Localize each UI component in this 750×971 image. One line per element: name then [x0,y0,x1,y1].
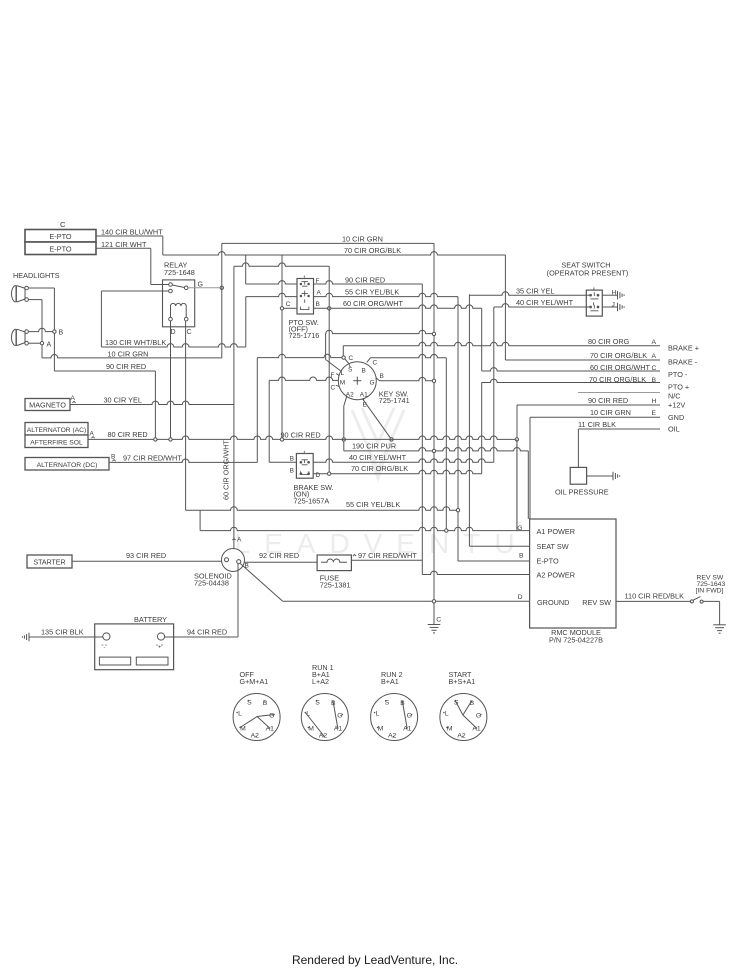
svg-text:A2: A2 [388,733,397,740]
key switch A1 tick [362,398,365,401]
svg-text:+12V: +12V [668,401,685,410]
column from 90 CIR RED row to fuse/A2 row [421,284,423,575]
svg-text:PTO +: PTO + [668,382,689,391]
wire L row branch [326,330,434,333]
key position OFF G+M+A1 [233,694,280,741]
svg-text:G: G [370,380,375,387]
svg-text:A1: A1 [472,726,481,733]
svg-text:B: B [362,367,366,374]
PTO switch 725-1716 [297,279,314,315]
wire key M 190 feed [269,377,338,380]
svg-text:725-04438: 725-04438 [194,578,229,587]
svg-text:A2 POWER: A2 POWER [537,570,576,579]
svg-text:L: L [445,711,449,718]
junction brake row on PTO B column [328,472,331,475]
svg-text:B+A1: B+A1 [381,677,399,686]
svg-text:(OPERATOR PRESENT): (OPERATOR PRESENT) [547,268,629,277]
svg-text:90 CIR RED: 90 CIR RED [106,362,146,371]
svg-text:725-1741: 725-1741 [379,396,410,405]
svg-text:P/N 725-04227B: P/N 725-04227B [549,635,603,644]
node B junction [53,330,56,333]
svg-text:D: D [518,594,523,601]
wire headlight upper lower terminal to node A column [28,299,42,301]
svg-text:G: G [476,713,481,720]
svg-text:BRAKE -: BRAKE - [668,358,698,367]
svg-text:94 CIR RED: 94 CIR RED [187,627,227,636]
svg-text:B: B [59,330,64,337]
svg-text:M: M [447,726,453,733]
wire 30 CIR YEL [72,401,75,403]
E-PTO branch column to PTO row [245,255,247,284]
key position RUN 2 B+A1 [371,694,418,741]
svg-text:BRAKE +: BRAKE + [668,344,699,353]
key position START B+S+A1 [440,694,487,741]
svg-text:A1: A1 [266,726,275,733]
svg-text:40 CIR YEL/WHT: 40 CIR YEL/WHT [516,298,574,307]
key switch S tick [349,365,350,367]
svg-text:97 CIR RED/WHT: 97 CIR RED/WHT [123,453,182,462]
svg-text:A1: A1 [334,726,343,733]
svg-text:B: B [519,552,524,559]
PTO switch internals [300,276,309,310]
watermark LeadVenture V logo [352,408,404,478]
svg-text:B: B [290,455,294,462]
svg-text:B: B [290,467,294,474]
relay coil [170,306,172,317]
svg-text:A: A [317,290,322,297]
wire 80 CIR RED from alternator [91,437,94,439]
svg-text:G+M+A1: G+M+A1 [240,677,269,686]
solenoid 725-04438 [222,549,245,572]
svg-text:GROUND: GROUND [537,598,569,607]
column PTO B to brake row [328,266,330,473]
svg-text:N/C: N/C [668,391,681,400]
svg-text:40 CIR YEL/WHT: 40 CIR YEL/WHT [349,453,407,462]
headlight upper [11,285,15,302]
svg-text:MAGNETO: MAGNETO [29,400,66,409]
svg-text:90 CIR RED: 90 CIR RED [345,276,385,285]
wire key A2 down to 190 CIR PUR [344,397,347,406]
key switch plus mark [353,380,361,382]
junction +12V column on 90 row [515,438,518,441]
column key C right down [445,358,447,531]
svg-text:11 CIR BLK: 11 CIR BLK [578,420,616,429]
column PTO- to right list [481,308,483,371]
svg-text:D: D [171,329,176,336]
svg-text:C: C [349,355,354,362]
svg-text:D: D [316,472,321,479]
svg-text:L: L [238,711,242,718]
svg-text:10 CIR GRN: 10 CIR GRN [342,234,383,243]
solenoid pin A [232,539,235,541]
svg-text:A: A [652,353,657,360]
svg-text:B: B [111,453,115,460]
junction key E on 90 CIR RED row [390,438,393,441]
svg-text:ALTERNATOR (DC): ALTERNATOR (DC) [37,462,98,469]
svg-text:60 CIR ORG/WHT: 60 CIR ORG/WHT [590,363,651,372]
svg-text:L+A2: L+A2 [312,677,329,686]
key switch F tick [336,374,339,376]
svg-text:M: M [378,726,384,733]
brake switch internals [300,451,310,475]
svg-text:70 CIR ORG/BLK: 70 CIR ORG/BLK [351,464,408,473]
wire solenoid to ground diagonal [240,564,282,602]
svg-text:93 CIR RED: 93 CIR RED [126,551,166,560]
svg-text:AFTERFIRE SOL: AFTERFIRE SOL [30,439,83,446]
connector E-PTO 2 [25,242,96,255]
wire key E diagonal [362,399,391,440]
svg-text:C: C [60,220,66,229]
svg-text:[IN FWD]: [IN FWD] [696,587,724,594]
svg-text:A2: A2 [319,733,328,740]
junction A2 on 90 CIR RED row [342,438,345,441]
svg-text:190 CIR PUR: 190 CIR PUR [352,441,396,450]
starter [27,555,72,568]
wire solenoid to battery column [237,564,239,637]
svg-text:"+": "+" [156,645,163,651]
svg-text:30 CIR YEL: 30 CIR YEL [104,395,142,404]
svg-text:A: A [47,342,52,349]
svg-text:121 CIR WHT: 121 CIR WHT [101,240,147,249]
svg-text:A: A [90,430,95,437]
connector E-PTO 1 [25,230,96,243]
svg-text:B+S+A1: B+S+A1 [449,677,476,686]
svg-text:PTO -: PTO - [668,370,688,379]
junction 90 CIR RED alternator columns [154,438,157,441]
svg-text:70 CIR ORG/BLK: 70 CIR ORG/BLK [590,351,647,360]
svg-text:ALTERNATOR (AC): ALTERNATOR (AC) [27,427,86,434]
svg-text:97 CIR RED/WHT: 97 CIR RED/WHT [358,551,417,560]
svg-text:10 CIR GRN: 10 CIR GRN [590,408,631,417]
svg-text:GND: GND [668,413,684,422]
RMC module P/N 725-04227B [530,519,616,628]
svg-text:92 CIR RED: 92 CIR RED [259,551,299,560]
junction headlight column on PTO C row [280,307,283,310]
N/C stub [578,392,660,394]
brake switch 725-1657A [296,454,313,479]
svg-text:H: H [652,398,657,405]
svg-text:Rendered by LeadVenture, Inc.: Rendered by LeadVenture, Inc. [292,953,458,967]
svg-text:60 CIR ORG/WHT: 60 CIR ORG/WHT [343,299,404,308]
svg-text:G: G [517,525,522,532]
wire relay pin 2 to 130 CIR WHT/BLK [101,290,168,292]
svg-text:E: E [652,410,657,417]
svg-text:B: B [316,301,320,308]
key switch C left tick [336,385,339,386]
column headlight feed [281,255,283,439]
alternator (DC) [25,458,109,471]
svg-text:725-1381: 725-1381 [320,580,351,589]
svg-text:35 CIR YEL: 35 CIR YEL [516,286,554,295]
svg-text:C: C [286,301,291,308]
key switch 725-1741 [338,362,376,400]
svg-text:90 CIR RED: 90 CIR RED [281,430,321,439]
svg-text:A: A [71,395,76,402]
wire headlight upper to node B column [28,287,54,289]
wire 97 CIR RED/WHT from alternator DC [112,460,115,462]
svg-text:C: C [436,617,441,624]
svg-text:55 CIR YEL/BLK: 55 CIR YEL/BLK [345,287,399,296]
wire PTO C to headlight column [284,307,297,309]
svg-text:A2: A2 [457,733,466,740]
wire 80 CIR ORG / BRAKE + [342,346,344,356]
wire key L [325,333,327,359]
svg-text:A: A [652,339,657,346]
junction 190 CIR PUR on A2 column [432,449,435,452]
svg-text:F: F [316,278,320,285]
svg-text:OIL PRESSURE: OIL PRESSURE [555,487,609,496]
svg-text:HEADLIGHTS: HEADLIGHTS [13,271,60,280]
seat switch body [586,290,602,316]
svg-text:A2: A2 [346,391,354,398]
svg-text:"-": "-" [102,645,108,651]
svg-text:A1 POWER: A1 POWER [537,527,576,536]
svg-text:G: G [407,713,412,720]
oil pressure switch [570,467,586,484]
alternator (AC) [25,423,88,436]
rev switch to ground [703,600,720,602]
magneto [25,399,70,411]
svg-text:10 CIR GRN: 10 CIR GRN [108,349,149,358]
svg-text:C: C [187,329,192,336]
svg-text:STARTER: STARTER [33,560,65,567]
svg-text:L: L [341,370,345,377]
ground column 10 CIR GRN [433,243,435,601]
svg-text:80 CIR ORG: 80 CIR ORG [588,337,630,346]
wire magneto kill line [234,263,329,266]
svg-text:L: L [376,711,380,718]
relay pin G junction on 10 CIR GRN column [220,286,223,289]
wire key C right [367,358,371,363]
wire key C line [257,354,342,357]
junction key B on A2 column [432,379,435,382]
junction ground column [432,600,435,603]
wire relay pin D column to 80 CIR RED row [170,321,172,440]
svg-text:140 CIR BLU/WHT: 140 CIR BLU/WHT [101,228,163,237]
junction L row on ground column [432,332,435,335]
svg-text:E-PTO: E-PTO [49,245,71,254]
svg-text:E-PTO: E-PTO [537,556,559,565]
fuse 725-1381 [317,555,351,571]
svg-text:725-1716: 725-1716 [289,331,320,340]
svg-text:110 CIR RED/BLK: 110 CIR RED/BLK [625,592,685,601]
svg-text:B: B [380,373,384,380]
svg-text:70 CIR ORG/BLK: 70 CIR ORG/BLK [344,246,401,255]
wire headlight lower to node B junction [28,328,54,331]
svg-text:REV SW: REV SW [582,598,611,607]
svg-text:G: G [269,713,274,720]
svg-text:OIL: OIL [668,425,680,434]
battery ground symbol [22,633,29,641]
headlight lower [11,329,15,346]
svg-text:E-PTO: E-PTO [49,232,71,241]
junction A1 feed on key C column [445,529,448,532]
svg-text:130 CIR WHT/BLK: 130 CIR WHT/BLK [105,338,166,347]
svg-text:80 CIR RED: 80 CIR RED [108,430,148,439]
wire 97 CIR RED/WHT fuse output [353,555,356,557]
junction PTO B [328,307,331,310]
afterfire solenoid [25,435,88,448]
svg-text:G: G [337,713,342,720]
svg-text:90 CIR RED: 90 CIR RED [588,396,628,405]
junction headlight column on 90 row [280,438,283,441]
junction 55 row on E-PTO column [456,509,459,512]
svg-text:A2: A2 [251,733,260,740]
svg-text:BATTERY: BATTERY [134,615,167,624]
svg-text:725-1648: 725-1648 [164,268,195,277]
svg-text:M: M [308,726,314,733]
svg-text:G: G [198,281,203,288]
node A junction [40,342,43,345]
svg-text:A1: A1 [360,391,368,398]
svg-text:SEAT SW: SEAT SW [537,542,569,551]
wire GROUND row [283,600,530,602]
svg-text:A1: A1 [403,726,412,733]
wire A1 POWER feed row [199,510,201,530]
svg-text:M: M [340,380,345,387]
svg-text:A: A [237,537,242,544]
svg-text:C: C [331,385,336,392]
svg-text:60 CIR ORG/WHT: 60 CIR ORG/WHT [222,439,231,500]
key position RUN 1 B+A1 L+A2 [301,694,348,741]
wire relay pin C column to 55 CIR YEL/BLK row [185,321,187,510]
svg-text:C: C [373,360,378,367]
svg-text:725-1657A: 725-1657A [294,496,330,505]
svg-text:S: S [348,366,353,373]
wire headlight lower bottom terminal to node A [28,342,42,344]
svg-text:55 CIR YEL/BLK: 55 CIR YEL/BLK [346,500,400,509]
svg-text:135 CIR BLK: 135 CIR BLK [41,627,84,636]
